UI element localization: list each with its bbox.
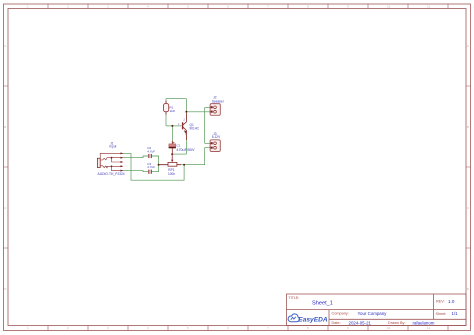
svg-text:A: A bbox=[467, 44, 469, 48]
svg-text:6: 6 bbox=[227, 5, 229, 9]
svg-text:Date:: Date: bbox=[332, 321, 341, 325]
svg-text:Input: Input bbox=[109, 145, 116, 149]
svg-text:9014C: 9014C bbox=[190, 127, 200, 131]
svg-text:2: 2 bbox=[67, 5, 69, 9]
svg-text:Sheet:: Sheet: bbox=[436, 312, 447, 316]
svg-text:2: 2 bbox=[67, 326, 69, 330]
svg-text:100k: 100k bbox=[168, 172, 175, 176]
svg-text:C: C bbox=[4, 206, 7, 210]
svg-text:1: 1 bbox=[178, 122, 180, 126]
svg-text:10: 10 bbox=[387, 326, 391, 330]
svg-text:TITLE:: TITLE: bbox=[289, 296, 300, 300]
svg-text:Your Company: Your Company bbox=[358, 311, 388, 316]
svg-text:Drawn By:: Drawn By: bbox=[388, 321, 406, 325]
svg-text:10: 10 bbox=[387, 5, 391, 9]
svg-text:1: 1 bbox=[27, 326, 29, 330]
svg-text:11: 11 bbox=[427, 5, 430, 9]
svg-text:1.0: 1.0 bbox=[448, 299, 455, 304]
svg-text:REV:: REV: bbox=[436, 300, 445, 304]
svg-text:B: B bbox=[4, 125, 6, 129]
svg-text:9: 9 bbox=[347, 5, 349, 9]
svg-text:2: 2 bbox=[183, 118, 185, 122]
svg-text:4: 4 bbox=[147, 5, 149, 9]
svg-text:5: 5 bbox=[187, 5, 189, 9]
svg-text:1: 1 bbox=[27, 5, 29, 9]
svg-text:3: 3 bbox=[107, 5, 109, 9]
svg-text:Speaker: Speaker bbox=[212, 99, 225, 103]
svg-text:7: 7 bbox=[267, 5, 269, 9]
svg-text:4.7uF: 4.7uF bbox=[147, 165, 155, 169]
svg-text:AUDIO-TH_PJ324: AUDIO-TH_PJ324 bbox=[98, 172, 125, 176]
svg-text:1k8: 1k8 bbox=[170, 109, 175, 113]
svg-text:2024-05-21: 2024-05-21 bbox=[349, 320, 372, 325]
svg-text:8: 8 bbox=[307, 5, 309, 9]
svg-text:8: 8 bbox=[307, 326, 309, 330]
svg-text:B: B bbox=[467, 125, 469, 129]
svg-text:C: C bbox=[467, 206, 470, 210]
svg-text:11: 11 bbox=[427, 326, 430, 330]
svg-text:5: 5 bbox=[187, 326, 189, 330]
svg-text:A: A bbox=[4, 44, 6, 48]
svg-text:rafaelanom: rafaelanom bbox=[413, 320, 435, 325]
svg-text:C1: C1 bbox=[176, 144, 180, 148]
svg-text:9: 9 bbox=[347, 326, 349, 330]
svg-text:EasyEDA: EasyEDA bbox=[298, 316, 328, 323]
svg-text:4: 4 bbox=[147, 326, 149, 330]
svg-text:5-12V: 5-12V bbox=[212, 135, 221, 139]
svg-text:Sheet_1: Sheet_1 bbox=[312, 301, 333, 307]
svg-text:6: 6 bbox=[227, 326, 229, 330]
svg-text:3: 3 bbox=[107, 326, 109, 330]
svg-text:4.7uF: 4.7uF bbox=[147, 150, 155, 154]
svg-text:7: 7 bbox=[267, 326, 269, 330]
svg-text:Company:: Company: bbox=[332, 312, 349, 316]
svg-text:D: D bbox=[467, 287, 470, 291]
svg-text:D: D bbox=[4, 287, 7, 291]
svg-text:1/1: 1/1 bbox=[452, 311, 459, 316]
svg-text:470uF/50V: 470uF/50V bbox=[176, 148, 195, 152]
